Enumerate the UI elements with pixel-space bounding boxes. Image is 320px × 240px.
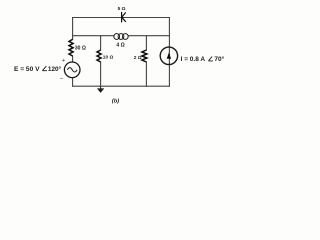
svg-text:5 Ω: 5 Ω	[118, 6, 126, 12]
svg-text:I = 0.8 A: I = 0.8 A	[181, 56, 206, 63]
svg-text:+: +	[62, 58, 65, 64]
svg-text:(b): (b)	[112, 98, 119, 104]
svg-text:10 Ω: 10 Ω	[103, 54, 114, 60]
svg-text:4 Ω: 4 Ω	[116, 43, 124, 49]
svg-text:70°: 70°	[214, 55, 224, 63]
svg-text:120°: 120°	[48, 65, 62, 73]
svg-text:−: −	[60, 76, 64, 82]
svg-text:2 Ω: 2 Ω	[134, 55, 142, 61]
svg-text:E = 50 V: E = 50 V	[14, 66, 40, 73]
svg-text:30 Ω: 30 Ω	[75, 46, 86, 52]
